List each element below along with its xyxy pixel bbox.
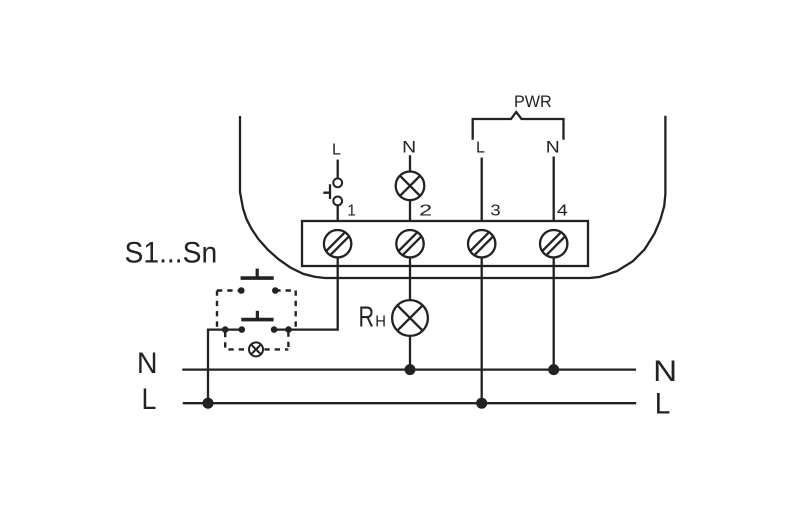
pushbutton S2 actuator: [241, 318, 273, 322]
indicator lamp dashed leads: [225, 332, 288, 349]
wire N to lamp: [409, 155, 411, 171]
terminal 2 screw: [395, 229, 425, 259]
junction dot pushbutton leg to L rail: [203, 398, 214, 409]
svg-text:N: N: [137, 347, 158, 380]
svg-text:L: L: [332, 141, 341, 158]
wire pushbutton row left to L rail: [208, 330, 242, 404]
svg-text:L: L: [655, 387, 671, 420]
N rail: [182, 368, 636, 370]
lamp RH: [392, 300, 428, 336]
wire lamp RH to N rail: [409, 336, 411, 370]
pushbutton S1 actuator: [241, 276, 274, 280]
svg-text:S1...Sn: S1...Sn: [125, 236, 218, 269]
dashed box left side: [216, 291, 218, 330]
svg-text:N: N: [402, 139, 416, 157]
svg-text:L: L: [142, 383, 157, 416]
L rail: [183, 402, 636, 404]
wire lamp to terminal 2: [409, 200, 411, 221]
lamp at terminal 2: [396, 172, 425, 201]
S1 contact dot right: [272, 287, 279, 294]
svg-text:R: R: [359, 302, 375, 334]
indicator lamp: [249, 342, 263, 356]
svg-text:N: N: [653, 355, 677, 388]
junction dot terminal 3 to L rail: [476, 398, 487, 409]
wire N to terminal 4: [553, 157, 555, 222]
junction dot terminal 4 to N rail: [548, 364, 559, 375]
svg-text:3: 3: [490, 203, 500, 220]
dashed box top edge: [217, 289, 296, 291]
junction dot RH lamp to N rail: [405, 364, 416, 375]
terminal 1 screw: [323, 229, 353, 259]
switch S upper contact: [333, 178, 342, 187]
device outline: [240, 116, 665, 278]
svg-text:2: 2: [419, 203, 432, 220]
svg-text:N: N: [546, 138, 560, 156]
PWR bracket: [473, 112, 564, 140]
S2 contact dots: [222, 326, 229, 333]
svg-text:1: 1: [347, 203, 356, 220]
terminal 4 screw: [539, 229, 569, 259]
wire terminal 4 to N rail: [553, 258, 555, 370]
wire L to switch: [337, 160, 339, 179]
terminal 3 screw: [467, 229, 497, 259]
wire terminal 1 down and left to pushbuttons: [274, 258, 338, 330]
svg-text:PWR: PWR: [514, 93, 552, 111]
svg-text:L: L: [476, 140, 485, 157]
switch S lower contact: [333, 197, 342, 206]
terminal block: [302, 221, 588, 266]
dashed box right side: [295, 291, 297, 329]
switch S actuator: [323, 184, 330, 199]
svg-text:4: 4: [557, 203, 568, 220]
wire terminal 3 to L rail: [481, 258, 483, 404]
wire terminal 2 to lamp RH: [409, 258, 411, 301]
S1 contact dot left: [238, 287, 245, 294]
svg-text:H: H: [375, 314, 386, 331]
wire L to terminal 3: [481, 158, 483, 222]
wire switch to terminal 1: [337, 205, 339, 221]
